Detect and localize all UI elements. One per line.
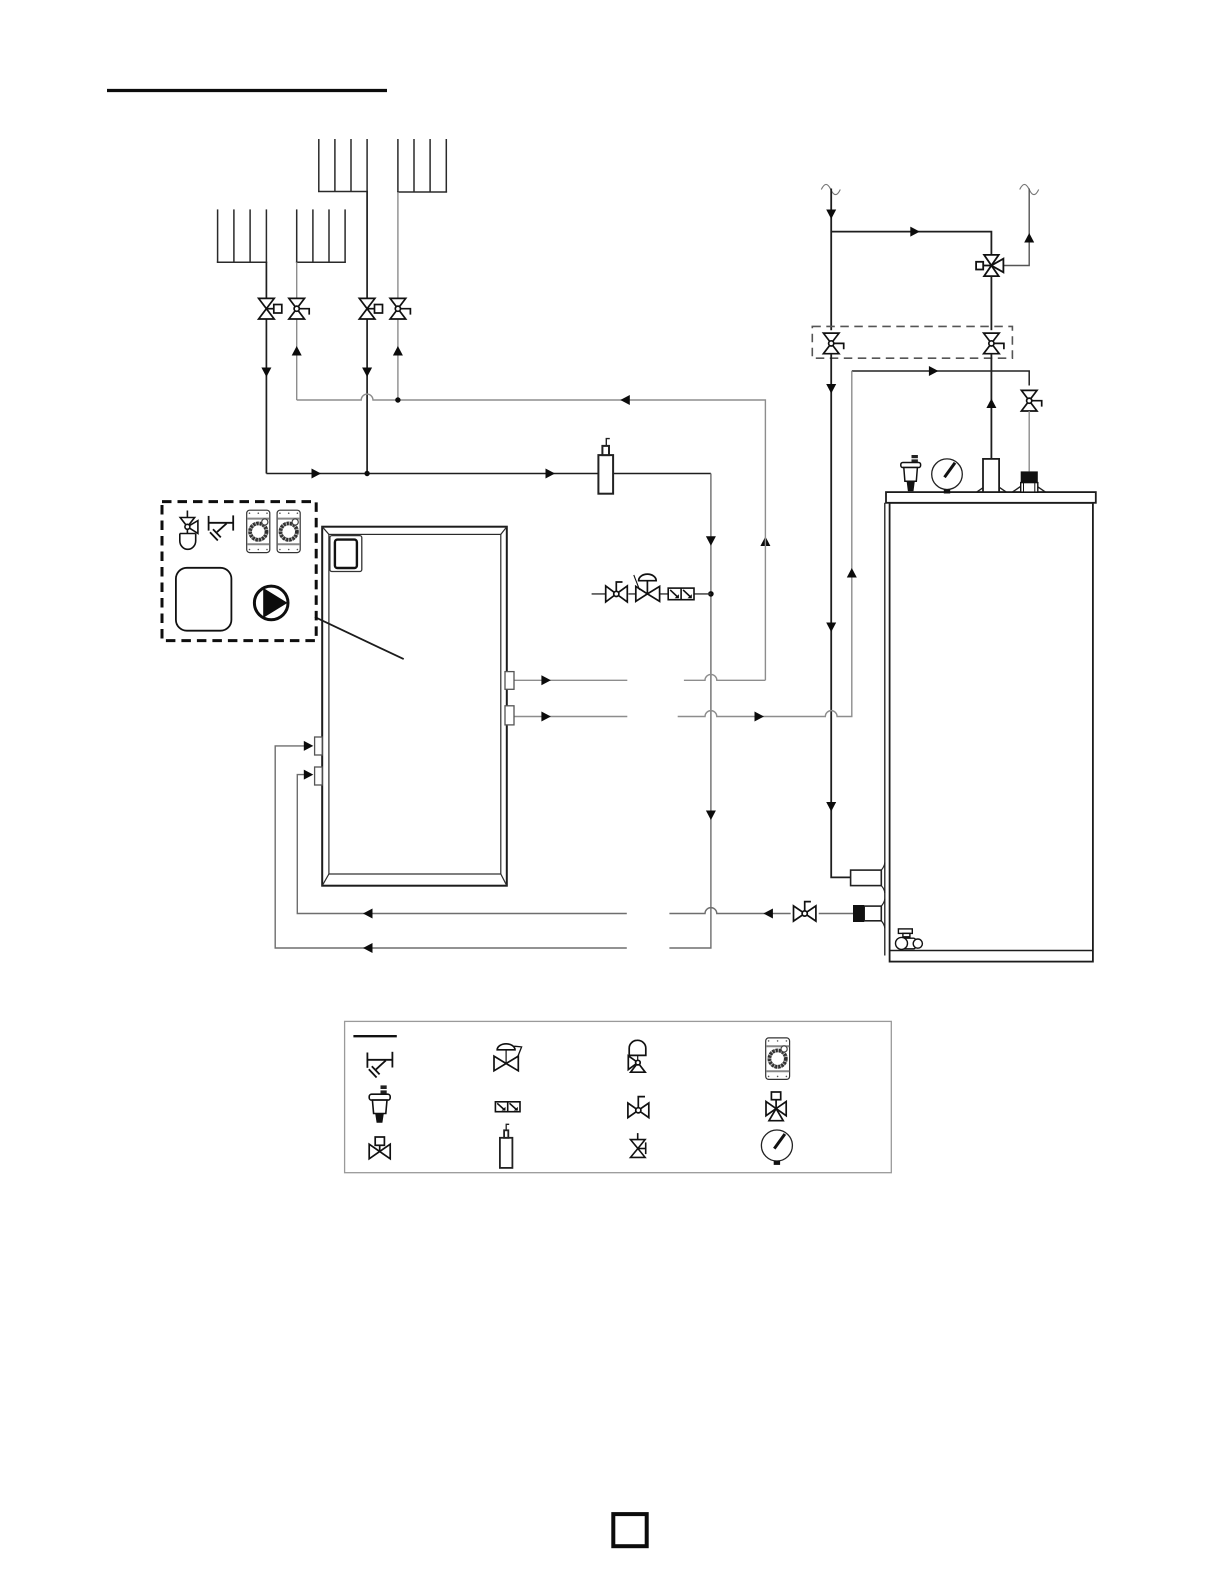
legend: backflow preventer [495,1102,520,1112]
wire: radiator 2 return drop x=397.9 [397,192,399,400]
legend: safety relief valve [628,1040,646,1072]
flow arrow down on R3 drop [261,368,271,378]
tank stub: lower right [505,706,514,725]
legend: timer clock [766,1038,790,1080]
wire: radiator 1 supply drop x=367.1 [366,192,368,474]
flow arrow up on hot outlet riser [1024,233,1034,243]
flow arrow down on x=710.9 drop [706,536,716,546]
wire: boiler supply to tank y=913.5 (valve, gap, hop over x=710.9) [297,775,854,914]
flow arrow right on top header [910,227,920,237]
boiler supply shut-off valve at (804.7,913.5) [794,902,816,922]
boiler supply stub (lower left, black union) [853,899,885,928]
wire: heating return header y=400 with hop over x=367.1 [297,394,766,680]
legend: motorised zone valve [369,1137,390,1159]
wire: hot side down to boiler DHW outlet x=991.4 [990,354,992,459]
wire: fill group line y=593.9 [592,593,711,595]
flow arrow down on cold feed (middle) [826,623,836,633]
water heater left seam / connection plate [884,503,886,956]
cold inlet fitting (black cap) on water heater [1021,471,1038,492]
flow arrow down on cold feed [826,210,836,220]
control detail dashed box [162,502,316,641]
water heater top fitting bases [977,487,1046,493]
pressure gauge on water heater [932,459,963,494]
legend: 3-way motorised valve [766,1092,786,1121]
zone valve V1 (motorised, square actuator) [259,298,282,319]
node: fill line junction [708,591,714,597]
safety relief valve (detail box) [180,511,198,550]
tank corner bevel bottom-right [501,874,507,886]
lockshield valve V4 [390,298,410,319]
legend: drain valve [631,1133,646,1157]
flow arrow left on y=913.5 run (west) [363,909,373,919]
wire: heating supply header y=473.5 [266,473,711,475]
flow arrow left on return header [620,395,630,405]
DHW outlet fitting (white) on water heater [983,459,999,492]
check valve (detail box) [209,515,234,540]
zone valve V3 (motorised, square actuator) [359,298,382,319]
pipe break squiggle (DHW cold feed) [821,184,840,194]
wire: mixing valve down to isolation valve x=991.4 [990,276,992,330]
flow arrow down on cold feed (below box) [826,384,836,394]
tank corner bevel top-left [322,527,329,535]
buffer tank inner shell [329,534,501,874]
flow arrow right on y=371 line [929,366,939,376]
outdoor sensor (rounded square, detail box) [176,568,232,631]
wire: cold feed continues down x=831.2 to boiler return stub [831,354,850,878]
flow arrow up on boiler DHW outlet [986,399,996,409]
flow arrow up on return riser x=765.4 [760,537,770,547]
flow arrow up on R2 drop [393,346,403,356]
flow arrow down on cold feed (lower) [826,802,836,812]
flow arrow right into tank mid-left stub [304,770,314,780]
tank stub: lower left (return in) [315,767,323,785]
flow arrow right into tank lower-left stub [304,741,314,751]
legend: lockshield valve [628,1097,649,1118]
wire: tank-to-boiler flow line y=371 [852,371,1029,386]
timer clock 1 (detail box) [247,510,270,552]
flow arrow down on x=710.9 drop (lower) [706,811,716,821]
flow arrow left on y=948 run [363,943,373,953]
legend: automatic air vent [369,1085,390,1122]
title underline [107,89,387,92]
node: junction R2 drop / return header [395,397,400,402]
water heater top cap [886,492,1096,503]
legend: expansion vessel [500,1124,513,1168]
legend: pressure gauge [761,1130,792,1165]
isolation valve (right, hot side) [984,333,1004,354]
radiator 3 (second row left comb) [217,209,267,262]
flow arrow right before riser x=851.8 [755,712,765,722]
dashed enclosure: isolation valve set [812,326,1012,358]
wire: radiator 3 supply drop x=266.4 [265,262,267,473]
flow arrow left on y=913.5 run [763,909,773,919]
flow arrow up on riser x=851.8 [847,568,857,578]
fill shut-off valve (horizontal, lockshield) [606,582,628,602]
circulating pump P1 (detail box) [254,586,288,620]
leader line from control detail box to tank [315,617,404,659]
flow arrow right on tank lower outlet [541,712,551,722]
tank control panel (top-left square) [330,536,362,572]
radiator 1 (top left comb) [318,139,368,192]
tank corner bevel bottom-left [322,874,329,886]
boiler drain valve [896,929,923,950]
water heater bottom band [890,950,1093,952]
legend: pressure reducing valve [494,1044,522,1071]
wire: tank lower outlet y=716.5 (gap, hops over x=710.9 and x=831.2) [514,371,852,717]
wire: radiator 4 return drop x=296.7 [296,262,298,400]
3-way thermostatic mixing valve [976,255,1003,276]
expansion vessel (inline on supply header) [598,439,613,494]
legend box [345,1021,892,1172]
node: junction R1 drop / supply header [364,471,369,476]
wire: top header to mixing valve y=231.6 [831,232,991,255]
flow arrow down on R1 drop [362,368,372,378]
pressure reducing valve (fill group) [634,574,660,601]
wire: cold feed drop x=831.2 upper [830,189,832,331]
backflow preventer (fill group) [668,588,694,600]
buffer tank outer shell [322,527,507,886]
tank corner bevel top-right [501,527,507,535]
wire: down from valve to boiler cold inlet fitting [1028,411,1030,471]
flow arrow right on supply header (mid) [546,469,556,479]
wire: supply drop x=710.9 (header to fill tee to bottom) [275,474,711,949]
page number box [613,1514,646,1546]
tank stub: mid left (return in) [315,737,323,755]
flow arrow right on supply header (left) [312,469,322,479]
flow arrow up on R4 drop [292,346,302,356]
air vent on water heater [901,455,921,491]
lockshield valve V2 [289,298,309,319]
timer clock 2 (detail box) [277,510,300,552]
radiator 4 (second row right comb) [296,209,346,262]
wire: hot outlet riser x=1029.2 [1004,189,1030,266]
flow arrow right on tank top outlet [541,675,551,685]
boiler return stub (upper left, white) [851,863,885,894]
drain/bypass valve at x=1029.2 [1021,390,1041,411]
legend: pipe line sample [353,1035,396,1037]
tank stub: upper right [505,672,514,690]
isolation valve (left, cold side) [823,333,843,354]
legend: check valve [367,1052,392,1078]
water heater body [890,503,1093,962]
wire: tank top outlet y=680.3 (with gap and hop over x=710.9) [514,674,765,680]
radiator 2 (top right comb) [397,139,447,192]
pipe break squiggle (DHW hot outlet) [1020,184,1039,194]
